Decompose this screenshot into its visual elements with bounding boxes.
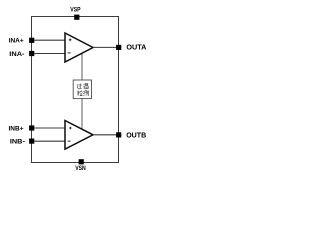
op-amp B [65, 121, 93, 150]
svg-text:INA-: INA- [9, 51, 24, 58]
wire INB- to op-amp B [34, 140, 65, 142]
pin INA- [29, 51, 34, 56]
svg-text:INB+: INB+ [9, 125, 24, 132]
svg-text:VSN: VSN [75, 165, 86, 172]
op-amp B plus input mark [69, 127, 72, 130]
detector label 检 [77, 91, 83, 96]
wire INB+ to op-amp B [34, 127, 65, 129]
op-amp A [65, 33, 93, 62]
op-amp B minus input mark [68, 140, 71, 142]
over-temperature detector box [73, 80, 91, 99]
svg-text:VSP: VSP [70, 7, 80, 14]
wire INA- to op-amp A [34, 53, 65, 55]
detector label 测 [83, 91, 88, 96]
pin INB- [29, 139, 34, 144]
op-amp A minus input mark [68, 52, 71, 54]
pin OUTA [116, 45, 121, 50]
pin INB+ [29, 125, 34, 130]
IC outline rectangle [32, 17, 119, 163]
pin VSP [74, 15, 79, 20]
wire op-amp A power down to detector [81, 52, 83, 80]
svg-text:INB-: INB- [10, 138, 25, 145]
pin INA+ [29, 38, 34, 43]
wire INA+ to op-amp A [34, 39, 65, 41]
wire op-amp A output to OUTA [93, 46, 119, 48]
op-amp A plus input mark [69, 39, 72, 42]
svg-text:INA+: INA+ [9, 38, 24, 45]
pin VSN [79, 159, 84, 164]
wire detector down to op-amp B power [81, 99, 83, 131]
pin OUTB [116, 132, 121, 137]
svg-text:OUTA: OUTA [126, 43, 147, 52]
svg-text:OUTB: OUTB [126, 131, 146, 140]
detector label 温 [83, 84, 89, 89]
wire op-amp B output to OUTB [93, 134, 119, 136]
detector label 过 [77, 84, 81, 89]
